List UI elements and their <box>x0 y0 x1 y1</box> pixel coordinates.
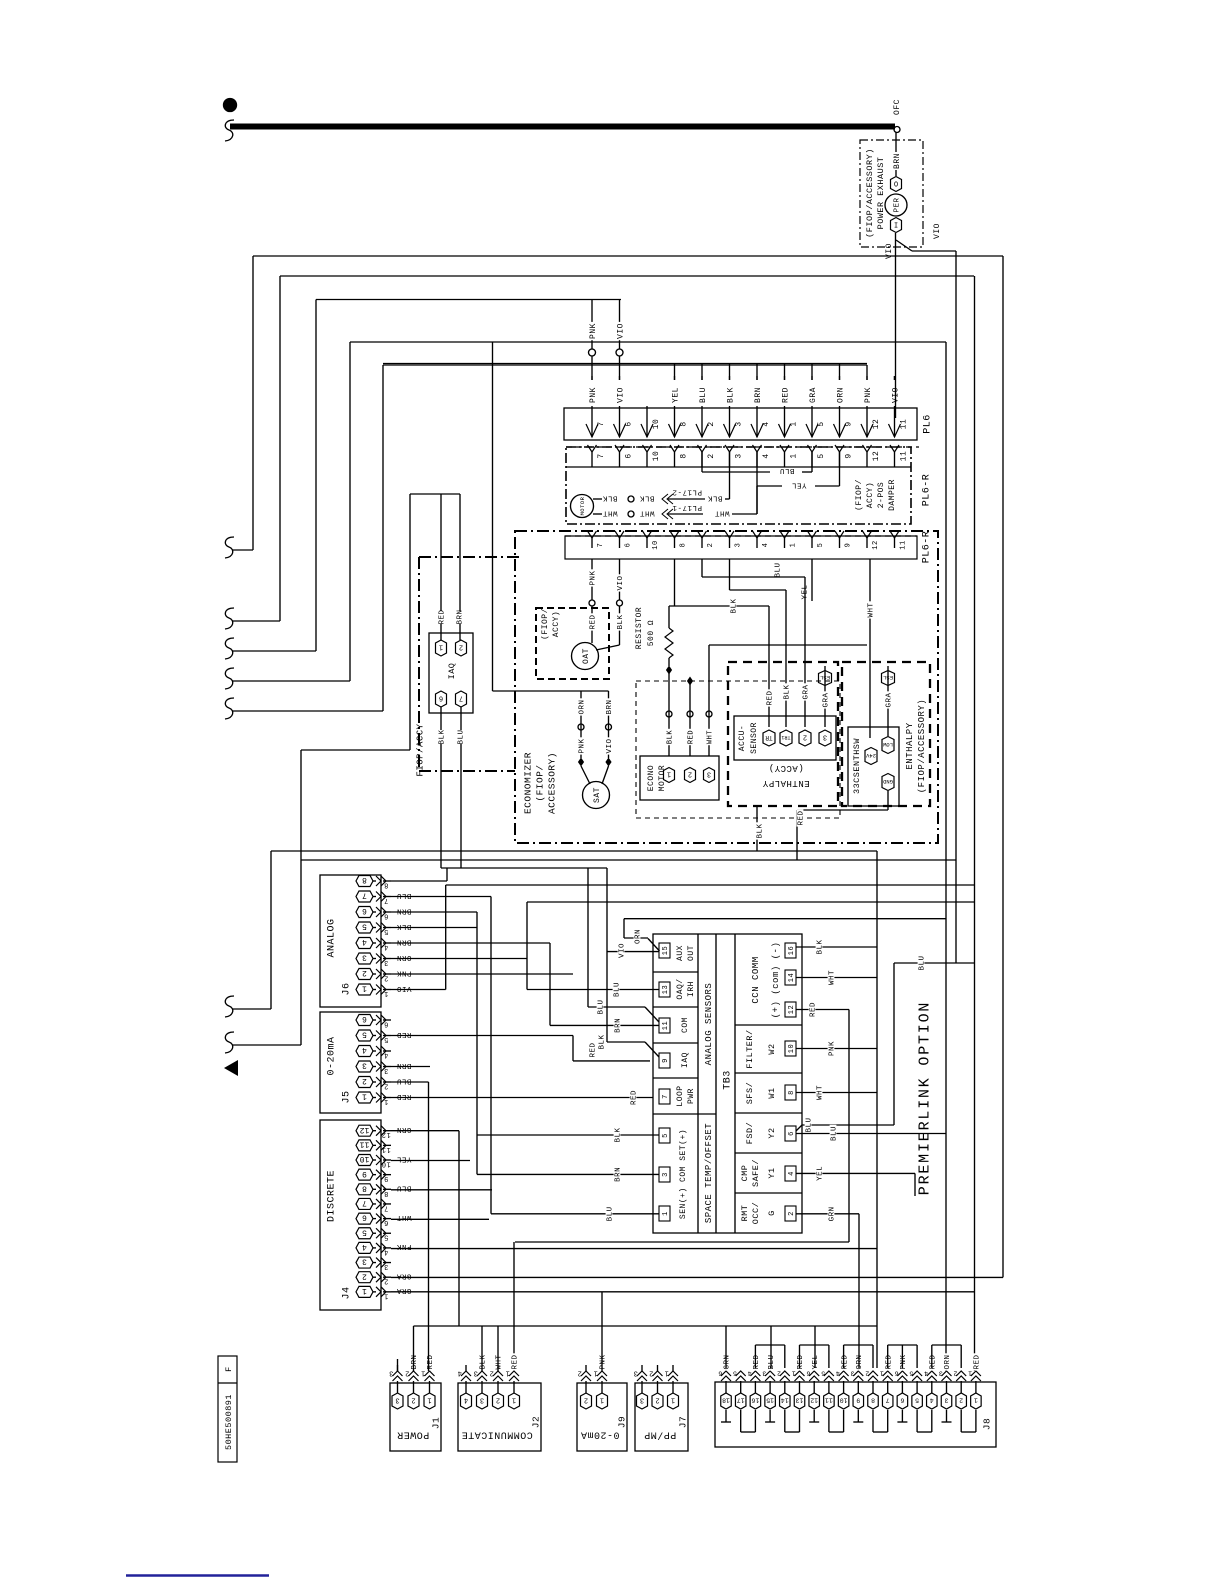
wire BRN to TB3 3 <box>477 1173 659 1175</box>
wire label ORN J8 pin 3 <box>943 1353 950 1370</box>
wire PNK J4-4 to J8 bus <box>391 1248 877 1250</box>
accu-sensor box <box>734 716 836 760</box>
svg-text:7: 7 <box>886 1397 890 1404</box>
svg-text:BLU: BLU <box>699 387 708 403</box>
J8 pin 12 <box>809 1393 820 1409</box>
J8 pin 8 <box>868 1393 879 1409</box>
svg-text:WHT: WHT <box>602 508 617 516</box>
PL6-R econ pin 1 <box>780 531 789 538</box>
svg-text:YEL: YEL <box>817 1166 825 1181</box>
svg-text:6: 6 <box>384 1218 389 1226</box>
wire BLU diag to TB3 11 <box>587 868 589 1007</box>
accu-sensor pin TR1 <box>780 730 792 746</box>
terminal O of PER <box>891 177 902 192</box>
svg-text:LOOP: LOOP <box>676 1085 685 1106</box>
PL6-R pin 10 <box>643 445 652 452</box>
svg-text:7: 7 <box>459 694 463 702</box>
svg-text:1: 1 <box>968 1370 972 1377</box>
J6 pin 5 <box>356 922 373 933</box>
svg-text:4: 4 <box>362 1045 367 1054</box>
wire BRN IAQ pin2 <box>459 494 461 611</box>
svg-text:YEL: YEL <box>671 387 680 403</box>
svg-text:4: 4 <box>924 1370 928 1377</box>
wire GRA J4-2 long <box>391 1276 1003 1278</box>
svg-text:WHT: WHT <box>817 1085 825 1100</box>
svg-text:15: 15 <box>662 946 670 955</box>
svg-text:11: 11 <box>899 419 908 430</box>
wire label BLK J2 pin 3 <box>479 1353 486 1370</box>
J9 pin 1 <box>597 1393 608 1409</box>
svg-text:BLK: BLK <box>480 1354 488 1369</box>
wire label RED J5 pin 1 <box>395 1094 412 1101</box>
IAQ pin 7 <box>456 691 467 707</box>
J1 pin 3 <box>392 1393 403 1409</box>
wire bus feeding PL6 pins <box>383 363 867 365</box>
svg-text:ECONO: ECONO <box>647 765 656 792</box>
svg-text:RED: RED <box>929 1354 937 1369</box>
svg-text:2: 2 <box>649 1369 654 1377</box>
J6 pin 7 <box>356 891 373 902</box>
svg-text:PNK: PNK <box>900 1354 908 1369</box>
svg-text:8: 8 <box>679 453 688 458</box>
svg-text:2: 2 <box>788 1211 796 1216</box>
wire RED IAQ pin1 <box>440 494 442 611</box>
svg-text:12: 12 <box>788 1005 796 1014</box>
svg-text:8: 8 <box>362 1183 367 1192</box>
svg-text:TR1: TR1 <box>781 734 790 740</box>
svg-text:3: 3 <box>633 1369 638 1377</box>
svg-text:GRN: GRN <box>724 1354 732 1369</box>
svg-text:2: 2 <box>803 733 807 741</box>
svg-text:24V: 24V <box>865 752 876 759</box>
svg-text:J6: J6 <box>342 982 353 995</box>
wire BRN J6-4 to TB3 COM11 <box>391 942 550 944</box>
svg-text:PL6: PL6 <box>923 414 934 434</box>
svg-text:VIO: VIO <box>606 738 614 753</box>
svg-text:RED: RED <box>439 609 447 624</box>
svg-text:1: 1 <box>789 453 798 458</box>
svg-text:3: 3 <box>938 1370 942 1377</box>
svg-text:BLK: BLK <box>707 493 722 501</box>
svg-text:4: 4 <box>788 1171 796 1176</box>
svg-text:(ACCY): (ACCY) <box>768 763 803 773</box>
svg-text:1: 1 <box>667 770 671 778</box>
J8 pin 15 <box>765 1393 776 1409</box>
PL6-R econ pin 3 <box>725 531 734 538</box>
svg-text:1: 1 <box>384 989 389 997</box>
J1 pin 1 <box>424 1393 435 1409</box>
PL6 pin 11 <box>894 406 896 437</box>
TB3 terminal 9 IAQ <box>659 1053 670 1068</box>
J1 pin 2 <box>408 1393 419 1409</box>
svg-text:2: 2 <box>496 1396 500 1404</box>
svg-text:RED: RED <box>512 1354 520 1369</box>
svg-text:BRN: BRN <box>754 387 763 403</box>
33CSENTHSW box <box>848 727 899 806</box>
svg-text:PNK: PNK <box>590 570 598 585</box>
TB3 terminal 12 <box>785 1002 796 1017</box>
wire WHT TB3 8 <box>796 1092 877 1094</box>
junction diamond resistor <box>666 666 672 675</box>
J8 pin 1 <box>971 1393 982 1409</box>
PL6 pin 3 <box>729 406 731 437</box>
J8 pin 4 <box>927 1393 938 1409</box>
TB3 terminal 3 COM <box>659 1167 670 1182</box>
PL6-R econ pin 5 <box>808 531 817 538</box>
svg-text:W2: W2 <box>767 1043 777 1054</box>
svg-text:11: 11 <box>899 451 908 462</box>
svg-text:9: 9 <box>844 453 853 458</box>
wire RED PL6-R pin3 to accu sensor TR1 <box>729 559 731 590</box>
svg-text:1: 1 <box>879 1370 883 1377</box>
svg-text:(FIOP/: (FIOP/ <box>541 608 550 640</box>
svg-text:COMMUNICATE: COMMUNICATE <box>461 1428 533 1439</box>
J4 pin 12 <box>356 1125 373 1136</box>
svg-text:1: 1 <box>600 1396 604 1404</box>
wire W4 vertical to J8 pin 3 <box>945 342 947 1371</box>
PL6-R pin 3 <box>725 445 734 452</box>
svg-text:4: 4 <box>930 1397 934 1404</box>
wire W5: route y365 to PL6 pin 12 <box>382 365 384 711</box>
svg-text:8: 8 <box>680 543 688 548</box>
wire VIO pin11 stub <box>894 376 896 380</box>
svg-text:(FIOP/: (FIOP/ <box>534 764 545 801</box>
svg-text:8: 8 <box>679 421 688 426</box>
econo motor pin 2 <box>685 768 696 783</box>
wire ORN/PNK to SAT <box>580 691 582 758</box>
svg-text:2: 2 <box>577 1369 582 1377</box>
svg-text:BRN: BRN <box>615 1018 623 1033</box>
svg-text:7: 7 <box>597 421 606 426</box>
svg-text:1: 1 <box>384 1097 389 1105</box>
svg-text:MOTOR: MOTOR <box>579 496 586 515</box>
connector J4 DISCRETE <box>320 1120 381 1310</box>
svg-text:VIO: VIO <box>933 223 942 239</box>
svg-text:6: 6 <box>625 543 633 548</box>
svg-text:ESL: ESL <box>820 674 830 681</box>
PL6-R pin 8 <box>670 445 679 452</box>
wire BLK chain from motor <box>593 498 602 500</box>
wire BLU PL6-R pin2 to enthalpy 2 <box>701 559 703 577</box>
33CSENTHSW heavy dashed box <box>842 662 930 806</box>
svg-text:YEL: YEL <box>791 480 806 488</box>
J4 pin 9 <box>356 1169 373 1180</box>
PL6-R pin 7 <box>588 445 597 452</box>
svg-text:2: 2 <box>707 543 715 548</box>
J8 pin 5 <box>912 1393 923 1409</box>
J8 pin 16 <box>750 1393 761 1409</box>
svg-text:14: 14 <box>788 973 796 982</box>
svg-text:SAFE/: SAFE/ <box>751 1159 761 1187</box>
svg-text:6: 6 <box>894 1370 898 1377</box>
svg-text:RED: RED <box>396 1030 411 1038</box>
wire BLU J5-2 to bottom bus <box>391 1081 429 1083</box>
wire label BLU J4 pin 8 <box>395 1186 412 1193</box>
svg-text:6: 6 <box>384 912 389 920</box>
wire BLK diag to TB3 9 <box>606 868 608 1042</box>
wire BLU premierlink <box>893 963 895 1125</box>
svg-text:50HE500891: 50HE500891 <box>224 1394 234 1450</box>
svg-text:4: 4 <box>835 1370 839 1377</box>
svg-text:2: 2 <box>384 1082 389 1090</box>
svg-text:12: 12 <box>381 1130 390 1138</box>
wire label ORN J6 pin 3 <box>395 955 412 962</box>
svg-text:7: 7 <box>362 1198 367 1207</box>
svg-text:1: 1 <box>671 1396 675 1404</box>
wire BLU IAQ pin7 <box>460 707 462 730</box>
svg-text:2: 2 <box>959 1397 963 1404</box>
wire label RED J8 pin 16 <box>752 1353 759 1370</box>
accu-sensor pin 2 <box>799 730 811 746</box>
svg-text:BLK: BLK <box>639 493 654 501</box>
wire VIO drop to PL6 pin 6 <box>619 300 621 350</box>
svg-text:PNK: PNK <box>579 738 587 753</box>
svg-text:5: 5 <box>362 1030 367 1039</box>
svg-text:BLU: BLU <box>396 891 411 899</box>
TB3 terminal 8 <box>785 1085 796 1100</box>
svg-text:16: 16 <box>788 946 796 955</box>
svg-text:9: 9 <box>844 421 853 426</box>
J5 pin 5 <box>356 1030 373 1041</box>
svg-text:J7: J7 <box>677 1416 688 1428</box>
svg-text:2: 2 <box>688 770 692 778</box>
svg-text:500 Ω: 500 Ω <box>647 620 656 647</box>
wire W2 vertical right side to J8 pin 1 <box>974 276 976 1371</box>
svg-text:7: 7 <box>597 543 605 548</box>
J2 pin 1 <box>509 1393 520 1409</box>
svg-text:2: 2 <box>362 1271 367 1280</box>
wire WHT TB3 14 <box>796 977 877 979</box>
svg-text:(+) (com) (-): (+) (com) (-) <box>771 942 781 1019</box>
J5 pin 6 <box>356 1015 373 1026</box>
svg-text:BLU: BLU <box>458 729 466 744</box>
svg-text:DISCRETE: DISCRETE <box>327 1170 338 1222</box>
J8 pair joins <box>725 1410 727 1422</box>
wire BRN to TB3 11 <box>550 1024 659 1026</box>
svg-text:4: 4 <box>762 453 771 458</box>
svg-text:W1: W1 <box>767 1087 777 1098</box>
wire WHT PL6-R pin12 to 33CSENTHSW <box>869 559 871 738</box>
wire BRN J5-3 stub <box>391 1066 430 1068</box>
svg-text:BLK: BLK <box>599 1034 607 1049</box>
J2 pin 3 <box>477 1393 488 1409</box>
svg-text:BLU: BLU <box>614 982 622 997</box>
wire h868 to TB3 diagonals <box>441 867 607 869</box>
sensor IAQ box <box>429 633 473 713</box>
PL6-R econ pin 8 <box>670 531 679 538</box>
TB3 terminal 7 LOOP PWR <box>659 1089 670 1104</box>
TB3 terminal 4 <box>785 1166 796 1181</box>
wire BRN/VIO to SAT <box>608 691 610 758</box>
PL6-R pin 5 <box>808 445 817 452</box>
svg-text:BLK: BLK <box>784 684 792 699</box>
svg-text:PWR: PWR <box>687 1088 696 1104</box>
svg-text:4: 4 <box>762 421 771 426</box>
sensor OAT <box>572 643 599 670</box>
wire GRA ESL above 33CSENTHSW <box>887 666 889 736</box>
TB3 terminal 2 <box>785 1206 796 1221</box>
svg-text:2: 2 <box>953 1370 957 1377</box>
svg-text:3: 3 <box>707 770 711 778</box>
svg-text:9: 9 <box>662 1058 670 1063</box>
svg-text:CMP: CMP <box>740 1165 750 1182</box>
wire YEL PL6-R pin5 <box>811 559 813 601</box>
wire label BRN J6 pin 4 <box>395 940 412 947</box>
svg-text:4: 4 <box>362 1242 367 1251</box>
svg-text:OAQ/: OAQ/ <box>676 978 685 999</box>
svg-text:3: 3 <box>473 1369 478 1377</box>
svg-text:2: 2 <box>405 1369 410 1377</box>
svg-text:BLK: BLK <box>396 922 411 930</box>
wire BLK to TB3 5 <box>477 1134 659 1136</box>
wire label BLU J8 pin 15 <box>767 1353 774 1370</box>
wire W4: route y342 <box>349 342 351 681</box>
J6 pin 2 <box>356 969 373 980</box>
svg-text:FSD/: FSD/ <box>745 1122 755 1144</box>
svg-text:BRN: BRN <box>606 699 614 714</box>
svg-text:1: 1 <box>427 1396 431 1404</box>
wire label BLU J6 pin 7 <box>395 893 412 900</box>
svg-text:GND: GND <box>882 778 893 785</box>
svg-text:PNK: PNK <box>829 1041 837 1056</box>
svg-text:RESISTOR: RESISTOR <box>635 607 644 649</box>
wire label GRA J4 pin 1 <box>395 1289 412 1296</box>
svg-text:GRN: GRN <box>829 1206 837 1221</box>
wire label PNK J4 pin 4 <box>395 1245 412 1252</box>
wire J1-3 stub <box>397 1365 399 1371</box>
wire BRN J6-6 to TB3 COM3 <box>391 911 477 913</box>
svg-text:3: 3 <box>944 1397 948 1404</box>
svg-text:5: 5 <box>909 1370 913 1377</box>
svg-text:RED: RED <box>781 387 790 403</box>
page footer blue rule <box>126 1574 269 1576</box>
svg-text:2: 2 <box>655 1396 659 1404</box>
TB3 terminal 1 SEN(+) <box>659 1206 670 1221</box>
svg-text:SPACE TEMP/OFFSET: SPACE TEMP/OFFSET <box>704 1123 714 1223</box>
svg-text:GRA: GRA <box>886 692 894 707</box>
svg-text:BLK: BLK <box>757 823 765 838</box>
svg-text:3: 3 <box>362 953 367 962</box>
svg-text:13: 13 <box>796 1397 804 1404</box>
svg-text:PNK: PNK <box>864 387 873 403</box>
wire PNK TB3 10 <box>796 1048 877 1050</box>
svg-text:WHT: WHT <box>868 602 876 617</box>
wire GRA with ESL tag to accu sensor 3 <box>824 666 826 727</box>
svg-text:ORN: ORN <box>635 929 643 944</box>
svg-text:6: 6 <box>806 1370 810 1377</box>
svg-text:3: 3 <box>384 1066 389 1074</box>
svg-text:ACCY): ACCY) <box>552 611 561 638</box>
wire label GRN J4 pin 12 <box>395 1127 412 1134</box>
motor PER power exhaust relay <box>885 194 907 216</box>
svg-text:FILTER/: FILTER/ <box>745 1029 755 1068</box>
svg-text:GRA: GRA <box>396 1286 411 1294</box>
svg-text:ORN: ORN <box>396 953 411 961</box>
svg-text:GRA: GRA <box>809 387 818 403</box>
J8 pin 6 <box>897 1393 908 1409</box>
svg-text:4: 4 <box>762 543 770 548</box>
svg-text:9: 9 <box>845 543 853 548</box>
svg-text:POWER: POWER <box>397 1428 430 1439</box>
wire GRN J4-12 to J8 <box>391 1130 459 1132</box>
svg-text:3: 3 <box>823 733 827 741</box>
motor damper MOTOR <box>571 495 594 518</box>
svg-text:2: 2 <box>584 1396 588 1404</box>
svg-text:LOW: LOW <box>882 741 893 748</box>
svg-text:1: 1 <box>664 1369 669 1377</box>
wire RED J5-5 to TB3 IAQ9 <box>391 1035 573 1037</box>
svg-text:BRN: BRN <box>411 1354 419 1369</box>
svg-text:VIO: VIO <box>891 387 900 403</box>
IAQ pin 6 <box>436 691 447 707</box>
wire PNK J8-6 drop <box>901 1345 903 1368</box>
wire label YEL J8 pin 12 <box>811 1353 818 1370</box>
TB3 terminal 5 SET(+) <box>659 1128 670 1143</box>
svg-text:WHT: WHT <box>829 970 837 985</box>
svg-text:ORN: ORN <box>856 1354 864 1369</box>
svg-text:TB3: TB3 <box>723 1070 734 1090</box>
svg-text:RED: RED <box>841 1354 849 1369</box>
PL6-R pin 1 <box>780 445 789 452</box>
wire label RED J8 pin 7 <box>884 1353 891 1370</box>
svg-text:ACCU-: ACCU- <box>738 725 747 752</box>
PL6-R econ pin 2 <box>698 531 707 538</box>
svg-text:PL6-R: PL6-R <box>922 531 933 564</box>
svg-text:ESL: ESL <box>883 674 893 681</box>
svg-text:5: 5 <box>384 927 389 935</box>
svg-text:BRN: BRN <box>615 1167 623 1182</box>
svg-text:CCN COMM: CCN COMM <box>751 956 761 1003</box>
svg-text:J5: J5 <box>342 1090 353 1103</box>
svg-text:0-20mA: 0-20mA <box>580 1428 619 1439</box>
svg-text:4: 4 <box>457 1369 462 1377</box>
wire BLU to TB3 13 <box>527 989 659 991</box>
wire BLK J6-5 to TB3 SET5 <box>391 927 477 929</box>
svg-text:1: 1 <box>362 1092 367 1101</box>
svg-text:OFC: OFC <box>893 99 902 115</box>
svg-text:RED: RED <box>974 1354 982 1369</box>
J4 pin 7 <box>356 1198 373 1209</box>
wire W1 vertical right side <box>1002 256 1004 1277</box>
svg-text:GRN: GRN <box>396 1125 411 1133</box>
svg-text:(FIOP/: (FIOP/ <box>855 479 864 511</box>
svg-text:10: 10 <box>652 419 661 430</box>
svg-text:3: 3 <box>480 1396 484 1404</box>
svg-text:3: 3 <box>395 1396 399 1404</box>
J5 pin 4 <box>356 1046 373 1057</box>
wire junction diamond 2 <box>687 677 693 686</box>
PL6 pin 10 <box>646 406 648 437</box>
svg-text:1: 1 <box>421 1369 426 1377</box>
TB3 terminal 15 AUX OUT <box>659 943 670 958</box>
accu-sensor pin TR <box>763 730 775 746</box>
PL6 pin 9 <box>839 406 841 437</box>
wire ORN to AUX OUT <box>624 918 946 920</box>
svg-text:5: 5 <box>732 1370 736 1377</box>
svg-text:15: 15 <box>766 1397 774 1404</box>
svg-text:5: 5 <box>362 922 367 931</box>
drawing number box 50HE500891 F <box>218 1356 237 1462</box>
svg-text:3: 3 <box>850 1370 854 1377</box>
svg-text:12: 12 <box>872 540 880 549</box>
wire BLU J6-7 to TB3 SEN <box>391 896 491 898</box>
svg-text:7: 7 <box>384 896 389 904</box>
svg-text:0-20mA: 0-20mA <box>327 1036 338 1075</box>
svg-text:6: 6 <box>900 1397 904 1404</box>
svg-text:J8: J8 <box>981 1418 992 1430</box>
wire YEL J4-10 <box>391 1160 470 1162</box>
svg-text:Y2: Y2 <box>767 1127 777 1138</box>
